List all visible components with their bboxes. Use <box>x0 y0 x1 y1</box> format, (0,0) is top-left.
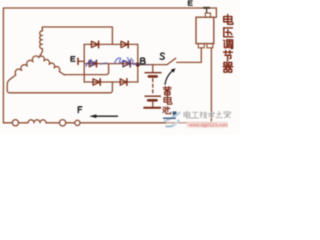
wire: B+ bus from junction to switch pivot <box>138 64 167 66</box>
label E (regulator top) <box>188 1 192 5</box>
battery callout curved arrow <box>165 71 173 85</box>
wire: phase B down to bottom feed bus <box>7 78 11 93</box>
watermark logo swirl <box>164 111 180 126</box>
wire: stator phase A feed from coil top to rectifier top row <box>42 27 112 44</box>
battery GB cell 1 short plate <box>149 75 157 78</box>
node B+ junction dot <box>136 62 140 66</box>
svg-text:www.dgjs123.com: www.dgjs123.com <box>189 122 228 128</box>
vertical label 蓄电池 (battery) <box>163 87 172 114</box>
wire: E terminal connector to left rail <box>79 60 85 62</box>
blue handwriting watermark over middle diodes <box>86 58 150 67</box>
regulator box U1 <box>196 17 214 43</box>
diode VD5 (bottom row left) <box>93 79 100 85</box>
rotor field coil (3 bumps) <box>28 120 46 123</box>
diode VD4 (middle row right) <box>123 60 130 66</box>
vertical label 电压调节器 (voltage regulator) <box>223 15 233 73</box>
rectifier middle row wire <box>84 63 138 65</box>
battery internal dashed link <box>152 79 154 94</box>
brush ring right <box>59 120 65 126</box>
rectifier left rail (E negative) <box>83 44 85 82</box>
wire: F terminal to right vertical <box>80 122 211 124</box>
wire: regulator right terminal down to field line <box>210 48 212 123</box>
wire: left frame border and top frame border <box>3 8 216 123</box>
watermark url strip <box>187 122 229 128</box>
switch S lever <box>167 58 176 64</box>
rectifier right rail (B+ output) <box>137 44 139 82</box>
regulator top terminal square <box>205 13 210 17</box>
battery ground bar <box>144 107 160 109</box>
E terminal stem on regulator top <box>206 9 208 14</box>
wire: field line to rotor coil <box>19 122 29 124</box>
watermark band fade over wires <box>166 121 214 125</box>
wire: right frame drop to regulator box top right corner <box>214 8 217 17</box>
diode VD6 (bottom row right) <box>120 79 126 85</box>
switch S fixed contact wire <box>177 61 202 63</box>
wire: rotor coil to right brush <box>46 122 59 124</box>
wire: phase C feed to rectifier middle row <box>64 64 108 75</box>
label B (B+ node) <box>141 58 146 64</box>
wire: field circuit bottom line left segment <box>3 122 12 124</box>
wire: battery positive stem <box>152 65 154 72</box>
label F (field terminal) <box>78 107 82 113</box>
battery GB cell 2 long plate <box>145 95 160 97</box>
label E (rectifier left) <box>71 57 75 62</box>
battery GB cell 1 long plate <box>145 72 161 74</box>
diode VD3 (middle row left) <box>89 60 96 66</box>
battery GB cell 2 short plate <box>148 99 156 102</box>
label S (switch) <box>160 53 164 59</box>
diode VD2 (top row right) <box>121 41 128 47</box>
rectifier top row wire <box>84 43 138 45</box>
F terminal ring <box>75 120 80 125</box>
stator phase A coil (vertical, 4 left bumps) <box>39 30 43 58</box>
regulator bottom terminal square right <box>207 44 213 48</box>
watermark text 电工技术之家 <box>184 111 231 119</box>
stator phase C winding (down-right wavy) <box>39 55 66 75</box>
E terminal bar near rectifier <box>77 58 79 64</box>
F direction arrow <box>95 115 118 117</box>
diode VD1 (top row left) <box>91 41 98 47</box>
stator phase B winding (down-left wavy) <box>9 55 39 79</box>
E terminal top bar <box>203 7 210 9</box>
wire: regulator left terminal down to switch <box>200 48 202 63</box>
brush ring left <box>12 120 18 126</box>
wire: bottom feed bus to rectifier bottom row <box>10 82 113 93</box>
wire: right brush to F terminal <box>66 122 75 124</box>
rectifier bottom row wire <box>84 81 138 83</box>
regulator bottom terminal square left <box>198 44 204 48</box>
wire: battery negative stem <box>152 102 154 108</box>
